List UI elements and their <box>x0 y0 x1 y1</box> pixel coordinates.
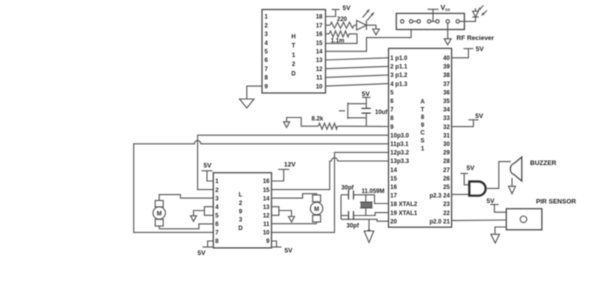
svg-text:5V: 5V <box>476 46 485 53</box>
wire LED to ground <box>366 25 376 29</box>
5V supply at reset circuit <box>362 91 371 109</box>
wire U1 p2.0 to PIR sensor <box>452 219 507 222</box>
5V supply at U1 pin31 <box>452 113 484 127</box>
capacitor 10uf <box>361 108 388 126</box>
wire U1 p3.3 to U3 pin15 with hop <box>272 158 389 190</box>
5V supply at U3 pin1 <box>202 163 214 182</box>
svg-text:L: L <box>239 193 243 199</box>
decoder U2 HT12D body <box>262 10 326 94</box>
svg-text:8.2k: 8.2k <box>312 116 324 122</box>
svg-text:H: H <box>291 35 295 41</box>
svg-text:30pf: 30pf <box>347 224 360 230</box>
svg-text:4 p1.3: 4 p1.3 <box>390 82 408 88</box>
svg-text:1 p1.0: 1 p1.0 <box>390 56 408 62</box>
ground at PIR sensor <box>491 234 500 243</box>
svg-text:30: 30 <box>443 142 450 148</box>
motor M2 right <box>310 195 322 224</box>
wire U2 pin12 to U1 pin2 <box>326 66 389 68</box>
wire U2 pin14 to RF receiver data <box>326 30 412 52</box>
svg-text:12: 12 <box>263 214 270 220</box>
ground at crystal <box>364 231 374 243</box>
5V supply at U1 pin40 <box>452 46 485 58</box>
svg-text:40: 40 <box>443 56 450 62</box>
svg-text:5V: 5V <box>198 250 207 257</box>
svg-text:31: 31 <box>443 133 450 139</box>
svg-text:16: 16 <box>316 32 323 38</box>
motor M1 left <box>153 201 165 229</box>
crystal X1 11.059M <box>360 189 385 216</box>
resistor 1.1m at U2 pins 15-16 <box>326 31 358 44</box>
svg-text:2 p1.1: 2 p1.1 <box>390 65 408 71</box>
svg-text:15: 15 <box>316 41 323 47</box>
svg-text:14: 14 <box>263 196 270 202</box>
svg-text:13: 13 <box>263 205 270 211</box>
ground at U2 pin9 <box>240 99 255 108</box>
wire PIR sensor to ground <box>495 227 506 234</box>
capacitor 30pf top <box>341 185 389 203</box>
svg-text:30pf: 30pf <box>341 185 354 191</box>
U2 pin numbers right 18-10 <box>316 15 323 91</box>
LED D1 <box>357 10 374 31</box>
svg-text:15: 15 <box>263 188 270 194</box>
wire RF receiver pin6 down <box>447 23 449 39</box>
svg-text:PIR SENSOR: PIR SENSOR <box>536 199 576 206</box>
AND gate buzzer driver <box>469 182 485 196</box>
svg-text:A: A <box>420 100 425 106</box>
svg-text:27: 27 <box>443 168 450 174</box>
photodiode D2 <box>472 6 487 18</box>
svg-text:D: D <box>291 71 296 77</box>
svg-text:32: 32 <box>443 125 450 131</box>
svg-text:33: 33 <box>443 116 450 122</box>
ground at LED <box>373 29 380 35</box>
resistor 8.2k <box>312 116 389 129</box>
svg-text:C: C <box>420 131 425 137</box>
wire 8.2k to ground <box>287 118 319 127</box>
svg-text:12: 12 <box>316 67 323 73</box>
wire U3 pin3 to left motor <box>159 195 213 201</box>
U3 pins 4-5 bracket to ground <box>194 207 214 216</box>
wire U2 pin11 to U1 pin3 <box>326 75 389 77</box>
svg-text:37: 37 <box>443 82 450 88</box>
U1 pin labels right <box>429 56 450 225</box>
Vcc supply at RF receiver <box>428 5 451 22</box>
buzzer LS1 <box>510 157 522 181</box>
svg-text:14: 14 <box>316 50 323 56</box>
svg-text:14: 14 <box>390 168 397 174</box>
svg-text:11p3.1: 11p3.1 <box>390 142 409 148</box>
svg-text:T: T <box>421 107 425 113</box>
svg-text:1.1m: 1.1m <box>331 38 345 44</box>
svg-text:p2.0 21: p2.0 21 <box>429 219 450 225</box>
wire U3 pin14 to right motor <box>272 194 317 198</box>
svg-text:10: 10 <box>263 231 270 237</box>
svg-text:T: T <box>292 44 296 50</box>
svg-text:25: 25 <box>443 185 450 191</box>
5V supply at gate <box>461 165 476 185</box>
capacitor 30pf bottom <box>341 211 389 230</box>
reset push button S1 <box>339 103 367 120</box>
svg-text:11: 11 <box>263 222 270 228</box>
svg-text:22: 22 <box>443 211 450 217</box>
svg-text:39: 39 <box>443 65 450 71</box>
PIR sensor body <box>506 209 542 230</box>
svg-text:17: 17 <box>316 23 323 29</box>
svg-text:3 p1.2: 3 p1.2 <box>390 73 408 79</box>
svg-text:19 XTAL1: 19 XTAL1 <box>390 211 418 217</box>
svg-text:28: 28 <box>443 159 450 165</box>
U3 pin numbers right 16-9 <box>263 179 270 245</box>
5V supply at U2 pin18 <box>326 5 352 17</box>
ground stem at crystal <box>368 219 370 231</box>
U3 pins 13-12 bracket to ground <box>272 207 292 217</box>
ground at buzzer <box>509 186 516 194</box>
svg-text:13: 13 <box>316 58 323 64</box>
ground stem at buzzer <box>511 178 513 187</box>
wire U1 p3.0 to U3 pin2 <box>198 135 389 189</box>
junction dot <box>368 229 371 232</box>
ground at 8.2k <box>284 122 290 128</box>
svg-text:36: 36 <box>443 90 450 96</box>
svg-text:5V: 5V <box>475 113 484 120</box>
resistor 220 at U2 pin17 <box>326 17 357 28</box>
svg-text:12V: 12V <box>284 162 296 169</box>
svg-text:M: M <box>157 211 162 217</box>
wire U2 pin10 to U1 pin4 <box>326 84 389 87</box>
crystal ground rail <box>340 195 342 220</box>
svg-text:11: 11 <box>316 76 323 82</box>
12V supply at U3 pin16 <box>272 162 297 181</box>
U3 pin numbers left 1-8 <box>215 179 219 245</box>
wire U1 p3.2 to U3 pin10 <box>272 152 389 232</box>
svg-text:15: 15 <box>390 176 397 182</box>
ground at U3 pins 4-5 <box>191 216 197 222</box>
wire left motor to U3 pin6 <box>159 224 213 229</box>
motor driver U3 L293D body <box>213 173 271 248</box>
svg-text:D: D <box>238 226 243 232</box>
svg-text:10: 10 <box>316 84 323 90</box>
svg-text:11.059M: 11.059M <box>362 189 385 195</box>
svg-text:18: 18 <box>316 15 323 21</box>
svg-text:26: 26 <box>443 176 450 182</box>
svg-text:35: 35 <box>443 99 450 105</box>
U1 pin labels left <box>390 56 418 225</box>
svg-text:13p3.3: 13p3.3 <box>390 159 409 165</box>
svg-text:18 XTAL2: 18 XTAL2 <box>390 202 418 208</box>
wire RF receiver pin7 to photodiode <box>459 17 475 21</box>
svg-text:20: 20 <box>390 219 397 225</box>
5V supply at U3 pin8 <box>198 241 214 257</box>
5V supply at U3 pin9 <box>272 241 294 255</box>
wire U2 pin13 to U1 pin1 <box>326 58 389 60</box>
svg-text:5V: 5V <box>285 248 294 255</box>
antenna arrow below RF receiver <box>444 39 451 45</box>
svg-text:38: 38 <box>443 73 450 79</box>
svg-text:17: 17 <box>390 194 397 200</box>
svg-text:5V: 5V <box>362 91 371 98</box>
svg-text:220: 220 <box>337 17 348 23</box>
svg-text:5V: 5V <box>467 165 476 172</box>
wire right motor to U3 pin11 <box>272 223 317 225</box>
svg-text:16: 16 <box>263 179 270 185</box>
svg-text:10p3.0: 10p3.0 <box>390 133 409 139</box>
MCU U1 AT89C51 body <box>389 48 452 227</box>
svg-text:S: S <box>420 139 424 145</box>
svg-text:16: 16 <box>390 185 397 191</box>
svg-text:p2.3 24: p2.3 24 <box>429 194 450 200</box>
wire U1 p3.1 to U3 pin7 with hop <box>134 141 389 233</box>
wire ground rail to U1 pin20 <box>341 219 389 221</box>
svg-text:34: 34 <box>443 108 450 114</box>
wire U2 pin9 to ground <box>247 86 262 99</box>
svg-text:23: 23 <box>443 202 450 208</box>
5V supply at PIR sensor <box>487 198 507 212</box>
svg-text:12p3.2: 12p3.2 <box>390 151 409 157</box>
wire U1 p2.3 to gate input <box>452 193 470 195</box>
svg-text:BUZZER: BUZZER <box>530 160 557 167</box>
svg-text:M: M <box>314 207 319 213</box>
svg-text:5V: 5V <box>487 198 496 205</box>
svg-text:cc: cc <box>445 7 451 12</box>
ground at U3 pins 13-12 <box>289 217 295 223</box>
svg-text:RF Reciever: RF Reciever <box>457 35 495 42</box>
svg-text:5V: 5V <box>343 5 352 12</box>
svg-text:29: 29 <box>443 151 450 157</box>
wire gate output to buzzer <box>486 162 511 189</box>
U2 pin numbers left 1-9 <box>265 15 269 91</box>
svg-text:5V: 5V <box>204 163 213 170</box>
svg-text:10uf: 10uf <box>375 110 388 116</box>
RF receiver module body <box>396 13 464 29</box>
